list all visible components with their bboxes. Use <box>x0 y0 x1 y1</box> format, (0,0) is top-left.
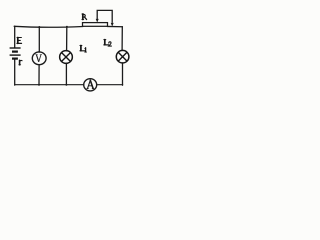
lamp L1 <box>60 51 73 64</box>
rheostat slider arm wire <box>97 10 112 23</box>
junction V bottom <box>38 84 40 86</box>
rheostat right-arm arrowhead onto wire <box>111 23 114 27</box>
label R <box>82 14 87 20</box>
junction L1 top <box>66 26 68 28</box>
label E <box>17 38 22 44</box>
rheostat R body <box>83 23 108 27</box>
junction L1 bottom <box>65 84 67 86</box>
junction V top <box>38 26 40 28</box>
wire right edge upper (top corner to lamp L2) <box>121 27 123 51</box>
wire voltmeter branch upper <box>38 27 40 52</box>
rheostat slider arrowhead on body <box>96 19 99 23</box>
label r <box>19 60 22 65</box>
wire top right of rheostat <box>107 25 122 27</box>
lamp L2 <box>116 50 129 63</box>
voltmeter V <box>32 52 46 65</box>
wire left edge lower (battery to bottom corner) <box>14 59 16 85</box>
junction V circle top <box>38 51 40 53</box>
battery E,r <box>10 48 21 59</box>
ammeter A <box>84 79 97 91</box>
wire top horizontal <box>14 25 83 28</box>
label L1 <box>80 46 87 53</box>
wire right edge lower (lamp L2 to bottom corner) <box>122 63 124 85</box>
wire lamp L1 branch lower <box>65 63 67 85</box>
wire bottom horizontal right of ammeter <box>97 84 123 86</box>
wire voltmeter branch lower <box>38 65 40 85</box>
wire lamp L1 branch upper <box>66 27 68 51</box>
wire bottom horizontal left of ammeter <box>15 84 84 86</box>
label L2 <box>104 40 112 47</box>
wire left edge upper (battery to top corner) <box>14 26 16 47</box>
